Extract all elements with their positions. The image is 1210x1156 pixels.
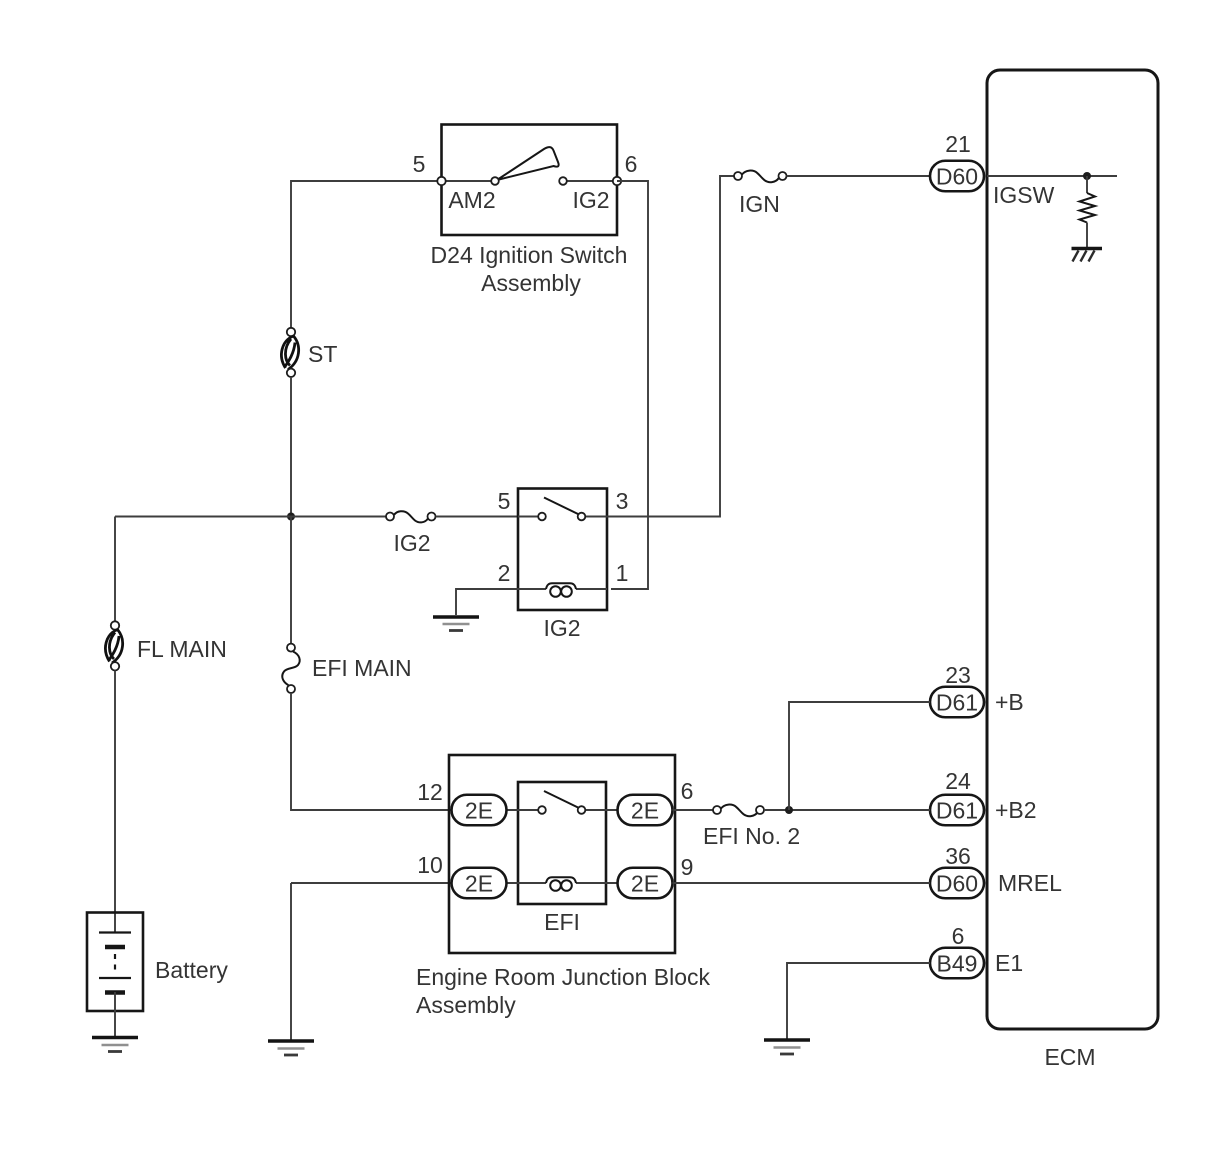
contact AM2: [491, 177, 499, 185]
svg-text:+B: +B: [995, 689, 1024, 715]
connector D60 pin 21: [930, 161, 984, 192]
connector 2E pin 10: [452, 868, 507, 899]
EFI relay box: [518, 782, 606, 904]
wire relay pin 2 to ground: [456, 589, 518, 615]
svg-text:2E: 2E: [631, 871, 659, 897]
wire IG2 fuse to relay pin 5: [436, 516, 519, 518]
resistor to chassis ground lead: [1086, 223, 1088, 249]
svg-text:IGSW: IGSW: [993, 182, 1055, 208]
relay IG2 box: [518, 489, 607, 611]
svg-text:EFI MAIN: EFI MAIN: [312, 655, 412, 681]
connector D61 pin 24: [930, 795, 984, 826]
wire IGN fuse to ECM pin 21: [787, 175, 931, 177]
relay EFI contact left: [538, 806, 546, 814]
wire relay pin 3 to IGN fuse: [607, 176, 734, 517]
svg-text:Battery: Battery: [155, 957, 228, 983]
resistor pull-down lead: [1086, 176, 1088, 193]
svg-text:+B2: +B2: [995, 797, 1037, 823]
svg-text:D60: D60: [936, 871, 978, 897]
connector B49 pin 6: [930, 948, 984, 979]
svg-text:D61: D61: [936, 690, 978, 716]
svg-text:D61: D61: [936, 798, 978, 824]
wire E1 to ground: [787, 963, 930, 1039]
svg-text:FL MAIN: FL MAIN: [137, 636, 227, 662]
svg-text:ST: ST: [308, 341, 337, 367]
ground E1: [764, 1040, 810, 1054]
svg-text:12: 12: [417, 779, 443, 805]
battery box: [87, 913, 143, 1012]
node resistor tap: [1083, 172, 1091, 180]
fusible link ST: [281, 328, 298, 377]
svg-text:IG2: IG2: [393, 530, 430, 556]
svg-text:B49: B49: [937, 951, 978, 977]
svg-text:23: 23: [945, 662, 971, 688]
svg-text:IGN: IGN: [739, 191, 780, 217]
relay contact left: [538, 513, 546, 521]
relay EFI blade: [544, 791, 578, 808]
connector 2E pin 9: [618, 868, 673, 899]
wire relay contact feed right: [585, 516, 607, 518]
svg-text:D24 Ignition Switch: D24 Ignition Switch: [431, 242, 628, 268]
node +B branch: [785, 806, 793, 814]
relay EFI coil: [507, 877, 618, 891]
wire IGSW inside ECM: [987, 175, 1117, 177]
fusible link FL MAIN: [105, 621, 122, 670]
battery cell plates: [99, 933, 131, 993]
connector D60 pin 36: [930, 868, 984, 899]
terminal pin 5: [437, 177, 445, 185]
contact IG2: [559, 177, 567, 185]
wire EFI No.2 fuse to ECM +B2: [764, 809, 930, 811]
wire pin 6 to EFI No.2 fuse: [673, 809, 714, 811]
wire internal AM2 feed: [441, 180, 491, 182]
wire battery riser to IG2 fuse: [115, 516, 386, 518]
svg-text:2E: 2E: [465, 871, 493, 897]
svg-text:ECM: ECM: [1044, 1044, 1095, 1070]
battery feed wire into box: [114, 913, 116, 932]
svg-text:E1: E1: [995, 950, 1023, 976]
wire EFI MAIN to junction block pin 12: [291, 693, 451, 810]
switch blade (ignition key lever): [497, 147, 559, 180]
battery negative lead to ground: [114, 992, 116, 1036]
fuse IGN: [734, 171, 787, 183]
D24 ignition switch assembly box: [442, 125, 618, 236]
svg-text:2E: 2E: [631, 798, 659, 824]
wire +B branch: [789, 702, 930, 810]
connector 2E pin 12: [452, 795, 507, 826]
svg-text:EFI No. 2: EFI No. 2: [703, 823, 800, 849]
terminal pin 6: [613, 177, 621, 185]
svg-text:2E: 2E: [465, 798, 493, 824]
svg-text:AM2: AM2: [448, 187, 495, 213]
wire pin 6 down to relay pin 1: [611, 181, 648, 589]
wire main junction down to EFI MAIN: [290, 517, 292, 644]
wire 2E to EFI relay contact: [507, 809, 539, 811]
svg-text:Engine Room Junction Block: Engine Room Junction Block: [416, 964, 711, 990]
svg-text:9: 9: [681, 854, 694, 880]
fuse IG2: [386, 511, 436, 522]
fuse EFI No. 2: [713, 805, 764, 817]
ground relay coil: [433, 617, 479, 631]
svg-text:EFI: EFI: [544, 909, 580, 935]
svg-text:Assembly: Assembly: [416, 992, 516, 1018]
ECM box: [987, 70, 1158, 1029]
wire ground branch to junction block pin 10: [291, 882, 451, 884]
wire internal IG2 feed: [567, 180, 617, 182]
relay contact right: [578, 513, 586, 521]
svg-text:1: 1: [616, 560, 629, 586]
connector D61 pin 23: [930, 687, 984, 718]
svg-text:24: 24: [945, 768, 971, 794]
svg-text:6: 6: [952, 923, 965, 949]
relay EFI contact right: [578, 806, 586, 814]
svg-text:Assembly: Assembly: [481, 270, 581, 296]
svg-text:IG2: IG2: [543, 615, 580, 641]
engine room junction block box: [449, 755, 675, 953]
relay coil IG2: [518, 583, 607, 597]
wire EFI relay contact to 2E: [585, 809, 618, 811]
svg-text:6: 6: [681, 778, 694, 804]
svg-text:IG2: IG2: [572, 187, 609, 213]
wire from ignition switch pin 5 left to vertical branch: [291, 181, 441, 328]
relay IG2 blade: [544, 498, 578, 515]
chassis ground (internal): [1072, 249, 1103, 262]
fuse EFI MAIN: [282, 644, 299, 693]
svg-text:36: 36: [945, 843, 971, 869]
svg-text:2: 2: [498, 560, 511, 586]
node main B+ junction: [287, 513, 295, 521]
svg-text:5: 5: [413, 151, 426, 177]
resistor (zigzag): [1080, 193, 1096, 223]
svg-text:3: 3: [616, 488, 629, 514]
wire battery positive vertical: [114, 517, 116, 622]
connector 2E pin 6: [618, 795, 673, 826]
ground battery: [92, 1038, 138, 1052]
wire pin 9 to MREL: [673, 882, 931, 884]
wire ST to main junction: [290, 377, 292, 517]
svg-text:6: 6: [625, 151, 638, 177]
svg-text:D60: D60: [936, 164, 978, 190]
wire relay contact feed left: [518, 516, 538, 518]
svg-text:MREL: MREL: [998, 870, 1062, 896]
wire FL MAIN to battery: [114, 671, 116, 914]
svg-text:21: 21: [945, 131, 971, 157]
svg-text:5: 5: [498, 488, 511, 514]
ground EFI MAIN branch: [268, 1041, 314, 1055]
svg-text:10: 10: [417, 852, 443, 878]
